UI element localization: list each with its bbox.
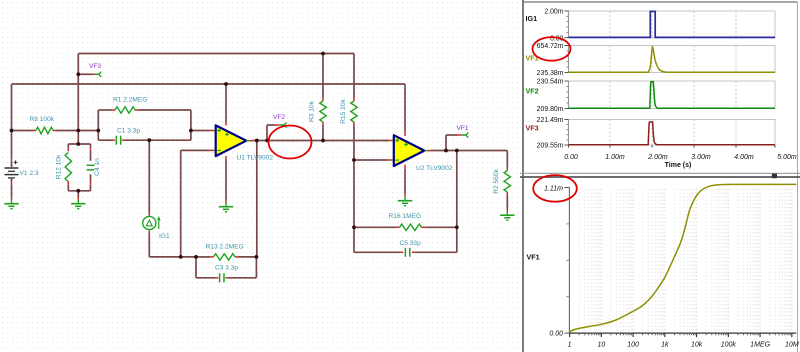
label C1 3.3p	[117, 127, 140, 134]
wire R3 vertical	[322, 54, 324, 141]
svg-text:235.38m: 235.38m	[537, 70, 564, 77]
svg-text:1k: 1k	[661, 342, 669, 349]
trace VF3 spike	[569, 122, 776, 145]
svg-text:R15 20k: R15 20k	[340, 99, 347, 124]
svg-text:U1 TLV9002: U1 TLV9002	[237, 155, 274, 162]
svg-text:100k: 100k	[721, 342, 737, 349]
wire vertical x78 from upper rail through VF3 node to input rail	[77, 54, 79, 145]
current source IG1	[143, 213, 161, 234]
label U1 TLV9002	[237, 155, 274, 162]
svg-text:0.00: 0.00	[549, 331, 563, 338]
wire VF3 upper rail	[79, 53, 355, 55]
plot panel frame	[521, 0, 800, 352]
svg-text:VF1: VF1	[457, 125, 469, 132]
wire R1 level	[98, 109, 191, 111]
transient plot boxes	[569, 11, 776, 145]
resistor R12	[65, 148, 71, 185]
wire U2 power top	[404, 84, 406, 131]
wire U1 power top	[225, 84, 227, 122]
resistor R16	[396, 224, 425, 230]
node VF1 stub	[446, 135, 458, 151]
ground for R2	[500, 208, 514, 220]
capacitor C1	[113, 136, 125, 145]
svg-text:R16 1MEG: R16 1MEG	[389, 213, 422, 220]
trace VF1 frequency response	[570, 184, 797, 332]
label R8 100k	[30, 116, 55, 123]
svg-text:VF3: VF3	[526, 124, 539, 133]
wire main top bus	[12, 83, 406, 85]
trace VF2 spike	[569, 82, 776, 109]
ground for R12 C4	[71, 197, 85, 209]
svg-text:U2 TLV9002: U2 TLV9002	[416, 165, 453, 172]
node VF3 stub	[78, 73, 91, 75]
node VF2 stub	[267, 125, 276, 141]
ac signal name VF1	[527, 253, 540, 262]
transient y-axis labels	[537, 9, 564, 150]
svg-text:R8 100k: R8 100k	[30, 116, 55, 123]
ac x-axis labels	[568, 342, 799, 349]
transient signal names	[526, 14, 539, 133]
op-amp U1	[210, 122, 253, 159]
svg-text:C4 1n: C4 1n	[94, 158, 101, 176]
label VF3	[89, 63, 101, 70]
annotation ellipse around 1.11m	[533, 175, 577, 202]
wire R16C5 box	[354, 227, 457, 252]
capacitor C5	[400, 248, 415, 257]
svg-text:R12 10k: R12 10k	[55, 154, 62, 179]
svg-text:C1 3.3p: C1 3.3p	[117, 127, 140, 134]
wire R15 to R16 vertical	[353, 160, 355, 227]
svg-text:100: 100	[627, 342, 639, 349]
svg-text:10: 10	[597, 342, 605, 349]
transient x-axis labels	[564, 154, 797, 161]
wire U2 output	[431, 150, 508, 152]
resistor R8	[33, 127, 56, 133]
annotation ellipse around VF2 node	[269, 126, 312, 159]
ac plot gridlines	[579, 189, 792, 332]
resistor R3	[320, 98, 326, 126]
trace IG1 pulse	[569, 11, 776, 37]
ground for V1	[4, 197, 18, 209]
resistor R1	[112, 107, 139, 113]
transient x-axis title	[665, 162, 692, 169]
svg-text:10k: 10k	[691, 342, 703, 349]
wire U2 power bottom	[404, 170, 406, 194]
svg-text:V1 2.3: V1 2.3	[20, 170, 39, 177]
probe VF3	[92, 72, 102, 77]
svg-text:5.00m: 5.00m	[777, 154, 797, 161]
wire U1 power bottom	[225, 159, 227, 199]
label VF2	[273, 114, 285, 121]
label R3 10k	[309, 100, 316, 122]
battery V1	[5, 158, 19, 197]
capacitor C3	[216, 273, 228, 282]
wire left vertical from bus to battery	[11, 84, 13, 158]
transient plot gridlines	[610, 11, 736, 145]
ground for U1	[219, 200, 233, 212]
annotation ellipse around 654.72m	[533, 37, 571, 61]
svg-text:R13 2.2MEG: R13 2.2MEG	[206, 244, 244, 251]
wire C1 to IG1 vertical	[148, 140, 150, 212]
ac plot axes and ticks	[564, 188, 796, 338]
svg-text:C5 33p: C5 33p	[400, 240, 422, 247]
svg-text:1MEG: 1MEG	[750, 342, 770, 349]
pane divider	[520, 173, 800, 178]
svg-text:3.00m: 3.00m	[691, 154, 711, 161]
op-amp U2	[385, 131, 431, 170]
svg-text:209.80m: 209.80m	[537, 106, 564, 113]
wire R1C1 box left edge	[97, 110, 99, 140]
capacitor C4	[87, 148, 95, 185]
svg-text:4.00m: 4.00m	[734, 154, 754, 161]
resistor R2	[504, 167, 510, 196]
svg-text:VF1: VF1	[526, 54, 539, 63]
wire R13C3 box	[196, 257, 256, 278]
transient x-axis ticks	[569, 145, 776, 148]
svg-text:230.54m: 230.54m	[537, 79, 564, 86]
label R12 10k	[55, 154, 62, 179]
svg-text:VF2: VF2	[273, 114, 285, 121]
svg-text:209.55m: 209.55m	[537, 143, 564, 150]
svg-text:0.00: 0.00	[564, 154, 578, 161]
wire U2 feedback vertical	[456, 151, 458, 228]
wire U2 -input	[354, 159, 385, 161]
probe VF1	[458, 132, 469, 137]
label C5 33p	[400, 240, 422, 247]
label R15 20k	[340, 99, 347, 124]
svg-text:R3 10k: R3 10k	[309, 100, 316, 122]
svg-text:R1 2.2MEG: R1 2.2MEG	[113, 96, 147, 103]
svg-text:VF2: VF2	[526, 87, 539, 96]
svg-text:VF1: VF1	[527, 253, 540, 262]
wire U1 feedback vertical	[256, 141, 258, 257]
wire U1 output	[253, 140, 389, 142]
label C4 1n	[94, 158, 101, 176]
label V1 2.3	[20, 170, 39, 177]
svg-text:1.00m: 1.00m	[605, 154, 625, 161]
wire IG1 bottom	[149, 234, 196, 257]
probe VF2	[276, 122, 287, 127]
svg-text:1: 1	[568, 342, 572, 349]
wire R12C4 box	[68, 144, 90, 191]
label R16 1MEG	[389, 213, 422, 220]
wire R15 vertical	[353, 54, 355, 161]
wire R2 drop	[506, 151, 508, 209]
label R13 2.2MEG	[206, 244, 244, 251]
svg-text:221.49m: 221.49m	[537, 117, 564, 124]
label IG1	[159, 233, 170, 240]
svg-text:R2 560k: R2 560k	[493, 169, 500, 194]
svg-text:C3 3.3p: C3 3.3p	[215, 265, 238, 272]
ground for U2	[398, 194, 412, 206]
svg-text:IG1: IG1	[159, 233, 170, 240]
svg-text:Time (s): Time (s)	[665, 162, 692, 169]
svg-text:10M: 10M	[785, 342, 799, 349]
ac y-axis labels	[544, 186, 563, 338]
svg-text:654.72m: 654.72m	[537, 43, 564, 50]
wire C1 level	[98, 139, 191, 141]
label R1 2.2MEG	[113, 96, 147, 103]
wire R12C4 ground stub	[77, 191, 79, 197]
trace VF1 spike	[569, 46, 776, 72]
svg-text:IG1: IG1	[526, 14, 538, 23]
label C3 3.3p	[215, 265, 238, 272]
label U2 TLV9002	[416, 165, 453, 172]
svg-text:2.00m: 2.00m	[544, 9, 563, 16]
label R2 560k	[493, 169, 500, 194]
label VF1 schematic	[457, 125, 469, 132]
wire input rail R8 left	[12, 130, 34, 132]
wire input rail R8 right to R1C1 box	[56, 130, 98, 132]
wire U1 +input	[191, 130, 210, 132]
wire U1 -input	[181, 150, 210, 257]
resistor R13	[210, 254, 239, 260]
transient y-axis ticks	[565, 11, 569, 145]
svg-text:1.11m: 1.11m	[544, 186, 563, 193]
svg-text:VF3: VF3	[89, 63, 101, 70]
svg-text:2.00m: 2.00m	[647, 154, 668, 161]
resistor R15	[351, 98, 357, 126]
wire R1C1 box right edge	[190, 110, 192, 140]
